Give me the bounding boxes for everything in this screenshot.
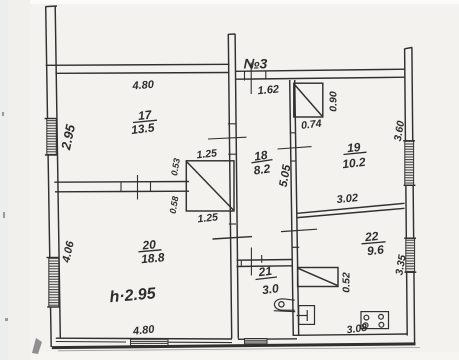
svg-text:21: 21 — [257, 264, 273, 280]
svg-text:3.0: 3.0 — [261, 281, 280, 297]
wall hall/kitchen vertical — [290, 80, 299, 336]
scan specks — [2, 112, 8, 321]
wall bathroom top — [237, 260, 293, 267]
svg-text:1.62: 1.62 — [257, 83, 279, 97]
svg-text:0.90: 0.90 — [328, 91, 340, 112]
closet C1 (hall, 1.25) — [186, 161, 234, 211]
wall center vertical — [228, 34, 238, 339]
sink — [297, 306, 315, 325]
closet C2 (top, 0.90x0.74) — [294, 83, 323, 117]
wall bottom (inner lines) — [56, 334, 408, 339]
toilet — [274, 299, 295, 312]
room label 20 — [139, 237, 166, 266]
window W5 bottom (room 20) — [131, 339, 169, 345]
svg-text:1.25: 1.25 — [196, 147, 218, 161]
door D2 mark (20-hall) — [213, 237, 253, 239]
closet C3 (kitchen, 0.52) — [298, 268, 338, 287]
window W3 right (room 19) — [403, 141, 415, 186]
svg-text:0.74: 0.74 — [301, 118, 323, 132]
window W4 right (room 22) — [404, 238, 416, 272]
svg-text:3.02: 3.02 — [336, 192, 359, 206]
room label 21 — [256, 264, 280, 298]
wall outer-left — [46, 6, 61, 347]
wall divider 17/20 — [54, 182, 189, 192]
window W1 left (2.95) — [45, 119, 58, 156]
room label 19 — [342, 140, 367, 171]
room label 22 — [362, 229, 386, 258]
svg-text:№3: №3 — [244, 56, 268, 72]
svg-text:9.6: 9.6 — [366, 242, 384, 258]
window W6 bottom (bathroom) — [245, 339, 268, 344]
room label 18 — [252, 148, 273, 178]
door D7 entrance marks (top wall) — [245, 63, 266, 95]
wall top-left — [46, 64, 230, 73]
door D4 marks (hall-22) — [281, 229, 317, 247]
wall outer-right — [405, 47, 415, 344]
stove — [361, 312, 389, 329]
svg-text:18.8: 18.8 — [141, 250, 166, 266]
door D5 marks (bathroom) — [241, 248, 261, 276]
wall top-right — [236, 69, 406, 79]
svg-text:10.2: 10.2 — [342, 155, 367, 171]
svg-text:13.5: 13.5 — [130, 120, 155, 137]
window W2 left (4.06) — [47, 258, 61, 308]
svg-text:0.52: 0.52 — [341, 272, 353, 293]
svg-text:4.80: 4.80 — [131, 323, 155, 337]
wall bottom (outer band) — [52, 344, 416, 348]
door D3 marks (hall-19) — [278, 133, 312, 161]
wall divider 19/22 — [298, 203, 405, 217]
door D6 marks (17-20 divider) — [121, 175, 151, 200]
svg-text:8.2: 8.2 — [253, 161, 272, 177]
svg-text:1.25: 1.25 — [197, 211, 219, 225]
svg-text:4.80: 4.80 — [131, 79, 155, 93]
room label 17 — [130, 108, 157, 138]
door D2 jamb dash — [229, 223, 236, 225]
door D1 marks (17-18) — [208, 124, 247, 154]
scan artifact bottom-left — [32, 338, 42, 354]
shadow line below bottom wall — [58, 348, 420, 351]
